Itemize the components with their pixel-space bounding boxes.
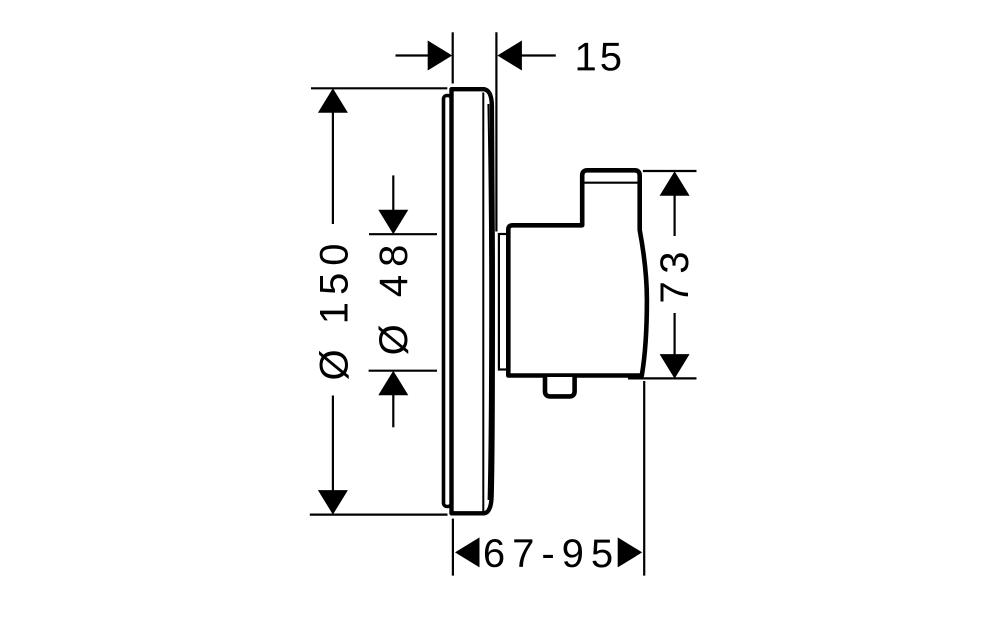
svg-text:15: 15 xyxy=(575,35,626,79)
svg-text:Ø 48: Ø 48 xyxy=(372,237,416,356)
svg-text:Ø 150: Ø 150 xyxy=(312,237,356,381)
svg-text:73: 73 xyxy=(653,244,697,304)
svg-text:67-95: 67-95 xyxy=(483,532,620,576)
